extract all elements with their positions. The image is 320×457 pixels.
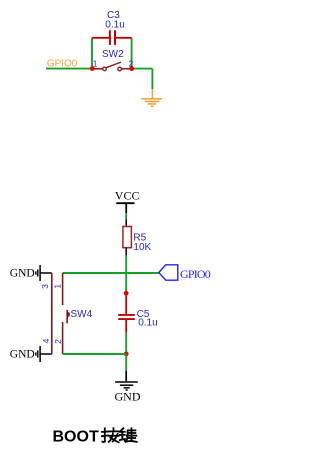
junction node 2 [129, 66, 134, 71]
switch SW4 [52, 273, 70, 354]
wire node B to GND [125, 354, 127, 371]
svg-text:BOOT: BOOT [53, 428, 99, 445]
wire right vertical to C3 [131, 38, 133, 69]
svg-text:10K: 10K [133, 242, 151, 253]
svg-text:2: 2 [53, 339, 63, 344]
switch SW2 [94, 62, 130, 71]
svg-text:1: 1 [52, 284, 62, 289]
svg-text:0.1u: 0.1u [138, 318, 157, 329]
earth ground (orange) [142, 89, 163, 106]
capacitor C5 [118, 295, 135, 333]
resistor R5 [123, 219, 131, 256]
svg-text:3: 3 [40, 284, 50, 289]
svg-text:GND: GND [115, 389, 141, 403]
junction node B [124, 352, 129, 357]
wire VCC to R5 [125, 213, 127, 219]
capacitor C3 [92, 30, 132, 45]
svg-text:GND: GND [10, 267, 35, 279]
power port GND (left top) [10, 265, 52, 281]
wire C5 to node B [125, 333, 127, 352]
power port GND (left bottom) [10, 346, 52, 362]
title hanzi 键 [120, 428, 137, 442]
wire SW4 pin1 to port GPIO0 [63, 272, 159, 274]
svg-text:GPIO0: GPIO0 [180, 267, 211, 281]
power port GND (bottom) [115, 371, 141, 404]
svg-text:4: 4 [41, 338, 51, 343]
port GPIO0 [159, 265, 211, 281]
wire node2 to earth [132, 68, 153, 70]
title hanzi 按 [102, 428, 119, 442]
wire R5 to node A [125, 256, 127, 291]
junction node 1 [90, 66, 95, 71]
svg-text:GND: GND [10, 348, 35, 360]
svg-text:0.1u: 0.1u [105, 19, 124, 30]
svg-text:SW2: SW2 [102, 49, 124, 60]
wire GPIO0 to node 1 [46, 68, 93, 70]
junction node A (above C5) [124, 291, 129, 296]
power port VCC [115, 188, 140, 213]
wire vertical to earth [151, 69, 153, 90]
wire left vertical to C3 [91, 38, 93, 69]
svg-text:VCC: VCC [115, 188, 140, 202]
svg-text:SW4: SW4 [71, 309, 93, 320]
wire SW4 pin2 to node B [63, 353, 127, 355]
